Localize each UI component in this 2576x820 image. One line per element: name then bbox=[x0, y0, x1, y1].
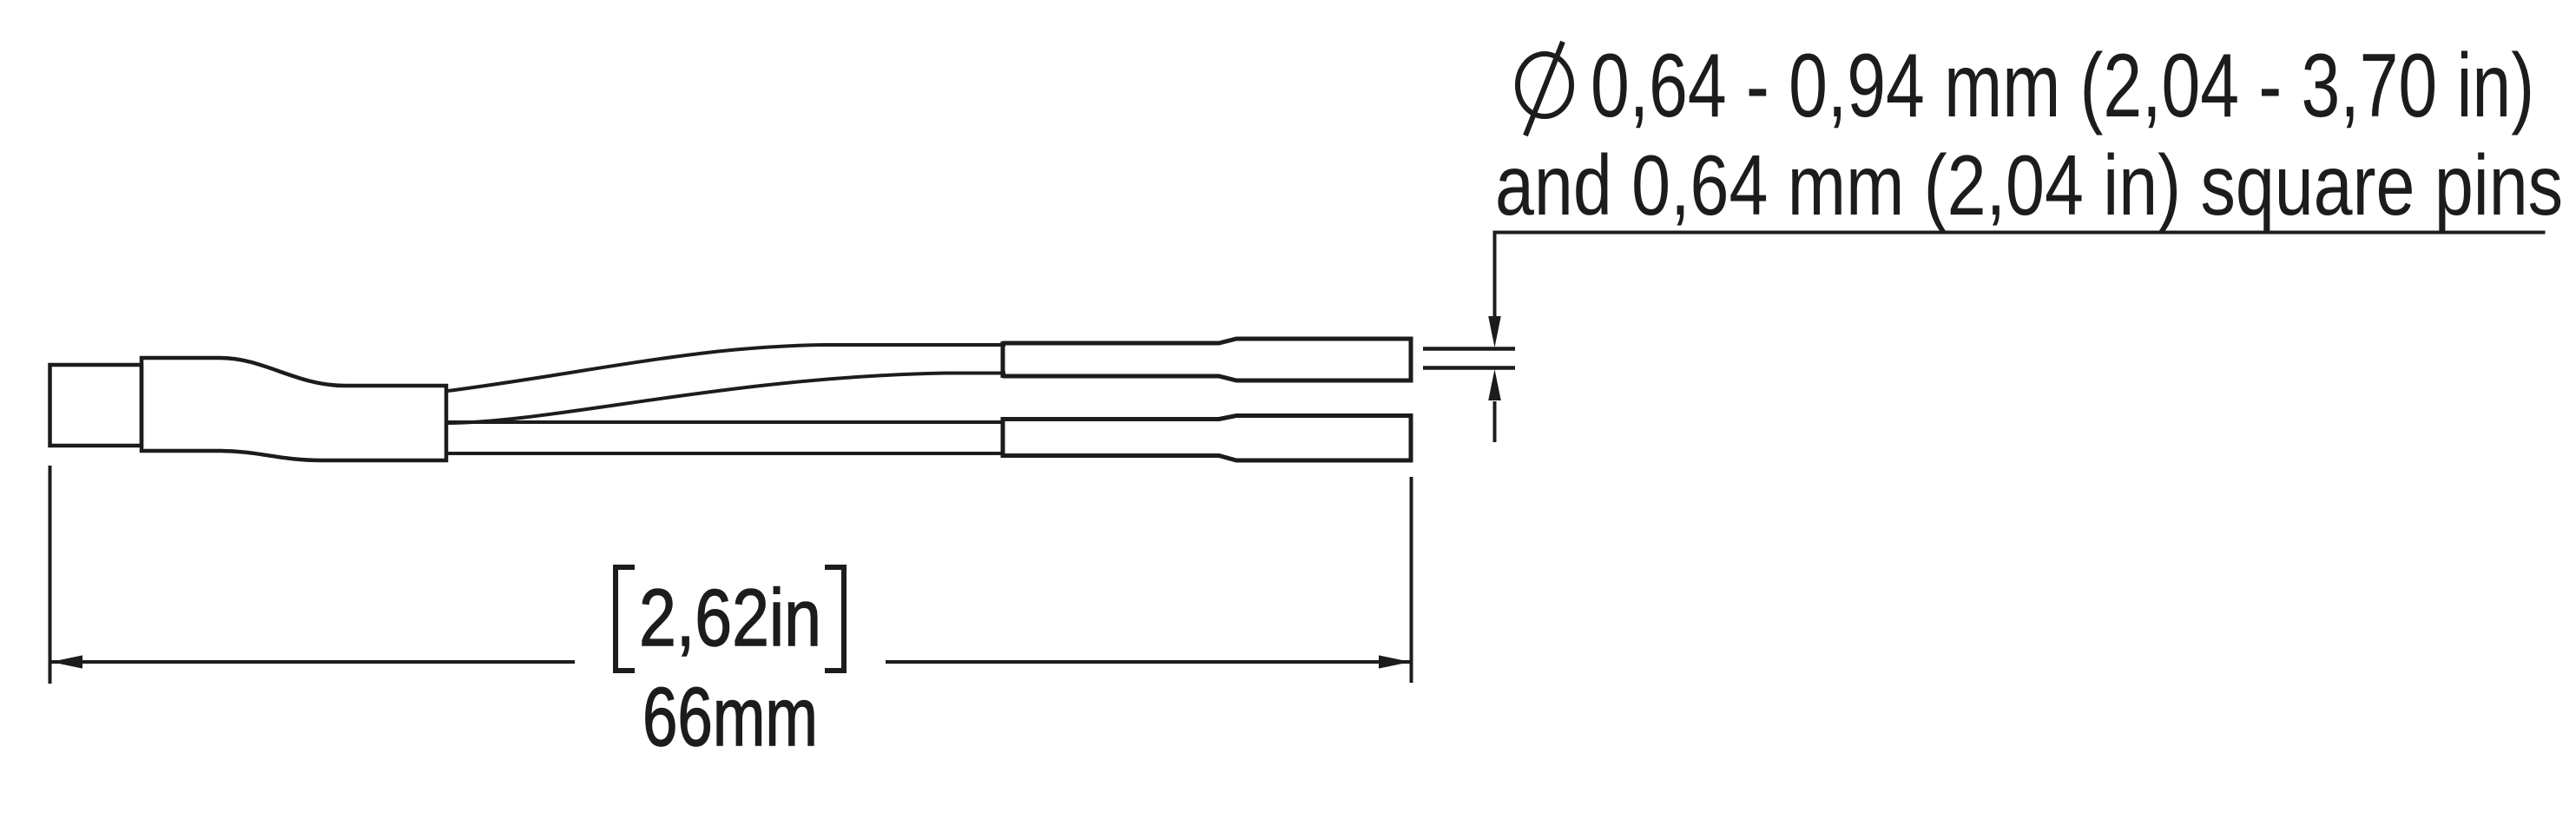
svg-text:0,64 - 0,94 mm (2,04 - 3,70 in: 0,64 - 0,94 mm (2,04 - 3,70 in) bbox=[1591, 36, 2534, 136]
svg-text:66mm: 66mm bbox=[642, 671, 818, 764]
svg-text:2,62in: 2,62in bbox=[639, 572, 821, 663]
svg-text:and 0,64 mm (2,04 in) square p: and 0,64 mm (2,04 in) square pins bbox=[1495, 137, 2563, 233]
